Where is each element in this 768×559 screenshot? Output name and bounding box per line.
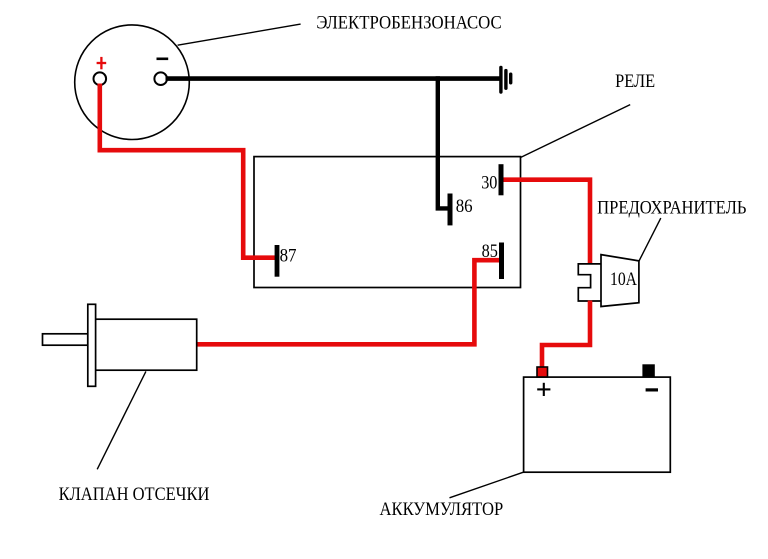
callout line to valve label [97, 371, 146, 469]
callout line to relay label [520, 105, 630, 158]
svg-text:ПРЕДОХРАНИТЕЛЬ: ПРЕДОХРАНИТЕЛЬ [597, 197, 746, 218]
svg-text:РЕЛЕ: РЕЛЕ [615, 71, 655, 92]
battery - terminal (black) [642, 364, 654, 377]
shut-off valve Y1 body [95, 319, 197, 370]
pump + polarity mark [97, 57, 107, 69]
battery + terminal (red) [537, 367, 548, 377]
wire: pin 85 to valve (red) [197, 260, 500, 344]
pump - polarity mark [157, 57, 169, 60]
battery - mark [646, 388, 658, 391]
svg-text:КЛАПАН ОТСЕЧКИ: КЛАПАН ОТСЕЧКИ [59, 484, 210, 505]
relay pin 86 [448, 194, 453, 226]
pump + terminal [94, 72, 107, 85]
wire: fuse bottom to battery + (red) [542, 301, 590, 369]
relay pin 87 [275, 245, 280, 277]
battery + mark [537, 383, 550, 396]
svg-text:АККУМУЛЯТОР: АККУМУЛЯТОР [380, 499, 504, 520]
relay pin 85 [499, 243, 504, 280]
ground (chassis) symbol [501, 67, 511, 92]
svg-text:86: 86 [456, 196, 473, 217]
svg-text:ЭЛЕКТРОБЕНЗОНАСОС: ЭЛЕКТРОБЕНЗОНАСОС [316, 12, 501, 33]
battery GB1 case [524, 377, 671, 472]
callout line to pump label [178, 24, 301, 45]
relay pin 30 [499, 164, 504, 195]
wire: pin 30 to fuse top (red) [502, 180, 590, 265]
svg-text:30: 30 [481, 172, 497, 193]
fuse F1 holder contact [578, 264, 601, 301]
svg-text:10А: 10А [610, 269, 637, 290]
fuse F1 body [601, 255, 639, 307]
pump - terminal [154, 72, 167, 85]
valve stem [43, 334, 88, 345]
callout line to battery label [450, 472, 524, 498]
valve flange [88, 304, 96, 386]
relay K1 box [254, 157, 521, 288]
svg-text:85: 85 [482, 241, 498, 262]
svg-text:87: 87 [280, 246, 297, 267]
callout line to fuse label [639, 218, 661, 261]
fuel pump M1 body circle [75, 25, 190, 140]
wire: pump - terminal to ground (black) [166, 76, 501, 81]
wire: pump + terminal to pin 87 (red) [100, 84, 276, 258]
wire: black drop from bus to relay pin 86 [438, 76, 450, 208]
